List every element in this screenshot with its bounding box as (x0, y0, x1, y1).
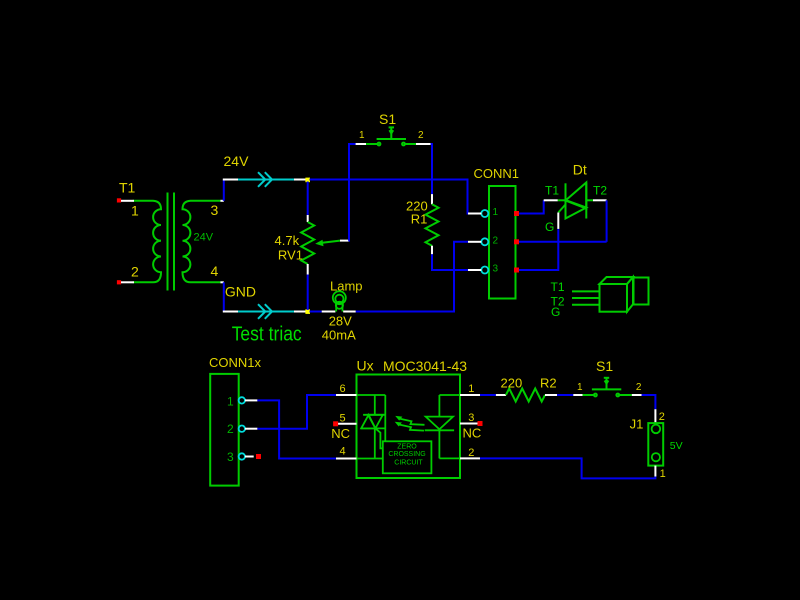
lamp (310, 311, 322, 313)
svg-text:1: 1 (577, 382, 583, 393)
net label GND (223, 282, 225, 311)
svg-text:3: 3 (211, 202, 219, 218)
svg-text:CONN1x: CONN1x (209, 355, 262, 370)
T1 pin 2 terminal square (117, 280, 121, 284)
svg-text:T1: T1 (119, 180, 136, 196)
wire MOC pin1 to R2 (480, 394, 496, 396)
MOC pin stubs (336, 395, 480, 459)
CONN1x body (210, 374, 239, 486)
svg-text:CROSSING: CROSSING (388, 451, 425, 458)
U1 pin 3 unconnected square (478, 421, 483, 426)
svg-text:2: 2 (227, 422, 234, 436)
svg-text:1: 1 (493, 207, 499, 218)
wire CONN1x pin1 to MOC pin4 (257, 400, 336, 458)
svg-text:24V: 24V (224, 153, 250, 169)
wire CONN1 pin1 to triac T1 (519, 200, 544, 213)
triac package drawing (572, 277, 649, 312)
svg-text:4: 4 (211, 263, 219, 279)
wire R1 bottom to CONN1 pin3 (432, 254, 468, 270)
svg-text:Test triac: Test triac (232, 324, 302, 346)
wire J1 pin1 to MOC pin2 (480, 458, 655, 478)
wire CONN1 pin3 to triac G (519, 229, 558, 270)
svg-text:2: 2 (131, 263, 139, 279)
svg-text:6: 6 (340, 383, 346, 395)
svg-text:MOC3041-43: MOC3041-43 (383, 358, 467, 374)
svg-text:2: 2 (468, 447, 474, 459)
svg-text:5V: 5V (670, 440, 683, 452)
transformer T1 (133, 193, 221, 291)
svg-text:Dt: Dt (573, 162, 587, 178)
resistor R2 (496, 394, 506, 396)
svg-text:T1: T1 (551, 280, 565, 294)
svg-text:1: 1 (131, 203, 139, 219)
CONN1x pin circles (239, 397, 245, 460)
wire RV1 wiper to S1 pin1 (349, 144, 356, 241)
svg-text:CIRCUIT: CIRCUIT (394, 460, 423, 467)
svg-text:T2: T2 (593, 184, 607, 198)
svg-text:Ux: Ux (357, 358, 374, 374)
RV1 wiper arrow (318, 241, 340, 244)
T1 pin stubs (121, 201, 224, 282)
svg-text:2: 2 (659, 411, 665, 423)
svg-text:T1: T1 (545, 184, 559, 198)
net label 24V (223, 180, 225, 201)
CONN1 pin circles (481, 210, 488, 274)
wire lamp to CONN1 pin2 (356, 242, 468, 312)
svg-text:RV1: RV1 (278, 248, 303, 263)
svg-text:GND: GND (225, 283, 256, 299)
svg-text:Lamp: Lamp (330, 279, 363, 294)
svg-text:3: 3 (493, 264, 499, 275)
svg-text:R2: R2 (540, 376, 557, 391)
U1 body outline (357, 375, 461, 479)
junction on 24V net (305, 178, 310, 183)
svg-text:S1: S1 (379, 111, 396, 127)
svg-text:G: G (545, 220, 554, 234)
CONN1x pin 3 unconnected square (256, 454, 261, 459)
svg-text:ZERO: ZERO (397, 444, 417, 451)
potentiometer RV1 (307, 182, 309, 216)
wire CONN1x pin2 to MOC pin6 (257, 395, 336, 429)
svg-text:24V: 24V (194, 232, 214, 244)
svg-text:1: 1 (359, 130, 365, 141)
svg-text:1: 1 (227, 394, 234, 408)
svg-text:1: 1 (468, 383, 474, 395)
T1 pin 1 terminal square (117, 198, 121, 202)
svg-text:2: 2 (418, 130, 424, 141)
svg-text:1: 1 (660, 468, 666, 480)
wire S1b to J1 (642, 395, 656, 409)
CONN1 body (489, 186, 516, 299)
MOC internal phototriac (357, 395, 386, 459)
svg-text:NC: NC (331, 426, 350, 441)
svg-text:220: 220 (501, 376, 523, 391)
CONN1x pin stubs (245, 400, 257, 456)
svg-text:4.7k: 4.7k (275, 233, 300, 248)
svg-text:28V: 28V (329, 314, 352, 329)
wire CONN1 pin2 to triac T2 (519, 241, 607, 243)
svg-text:J1: J1 (630, 417, 644, 432)
svg-text:G: G (551, 305, 560, 319)
svg-text:3: 3 (468, 412, 474, 424)
svg-text:5: 5 (340, 412, 346, 424)
svg-text:S1: S1 (596, 358, 613, 374)
svg-text:R1: R1 (411, 212, 428, 227)
CONN1 right-side terminal squares (514, 211, 519, 216)
wire 24V bus to CONN1 pin1 (310, 180, 469, 214)
junction on GND net (305, 309, 310, 314)
wire R2 to S1b (557, 394, 573, 396)
wire S1 pin2 to R1 top (431, 144, 432, 194)
MOC internal LED (425, 395, 460, 458)
svg-text:NC: NC (463, 426, 482, 441)
U1 pin 5 unconnected square (333, 421, 338, 426)
zero crossing circuit box (383, 441, 432, 473)
svg-text:40mA: 40mA (322, 328, 356, 343)
svg-text:2: 2 (493, 236, 499, 247)
svg-text:CONN1: CONN1 (474, 166, 520, 181)
svg-text:4: 4 (340, 446, 346, 458)
svg-text:3: 3 (227, 450, 234, 464)
photon arrows (400, 419, 425, 431)
resistor R1 (431, 194, 433, 204)
svg-text:2: 2 (636, 382, 642, 393)
CONN1 pin stubs (468, 214, 481, 271)
